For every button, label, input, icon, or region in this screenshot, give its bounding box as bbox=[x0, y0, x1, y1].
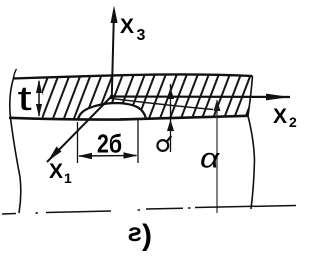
svg-text:X: X bbox=[49, 160, 63, 183]
svg-text:3: 3 bbox=[137, 27, 146, 44]
svg-text:): ) bbox=[142, 219, 152, 252]
svg-text:2б: 2б bbox=[97, 130, 122, 160]
svg-text:X: X bbox=[120, 15, 134, 38]
svg-text:α: α bbox=[200, 142, 221, 174]
svg-text:X: X bbox=[273, 105, 287, 128]
svg-text:2: 2 bbox=[289, 114, 297, 130]
svg-text:s: s bbox=[128, 217, 142, 247]
svg-text:t: t bbox=[18, 80, 32, 118]
svg-text:1: 1 bbox=[64, 170, 72, 186]
